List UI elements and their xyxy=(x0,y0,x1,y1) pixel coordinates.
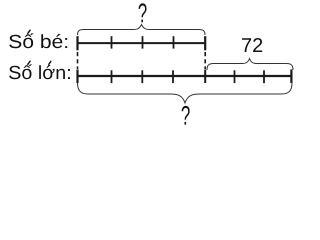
ticks So lon xyxy=(76,70,78,84)
bar So lon xyxy=(78,75,292,77)
overbrace top (So be) xyxy=(78,25,206,36)
bar So be xyxy=(78,42,206,44)
underbrace bottom (So lon) xyxy=(78,83,293,104)
label So lon xyxy=(9,64,70,79)
question mark bottom xyxy=(182,106,190,125)
overbrace 72 xyxy=(207,59,293,71)
label 72 xyxy=(242,38,262,52)
accent acute on o-circumflex (So lon) xyxy=(28,61,30,64)
question mark top xyxy=(139,3,147,22)
dashed link left xyxy=(77,52,79,69)
dashed link middle xyxy=(204,52,206,69)
ticks So be xyxy=(76,36,78,50)
accent acute on o-circumflex (So be) xyxy=(28,30,30,33)
accent acute on o-horn (So lon) xyxy=(49,61,51,64)
label So be xyxy=(9,33,67,48)
